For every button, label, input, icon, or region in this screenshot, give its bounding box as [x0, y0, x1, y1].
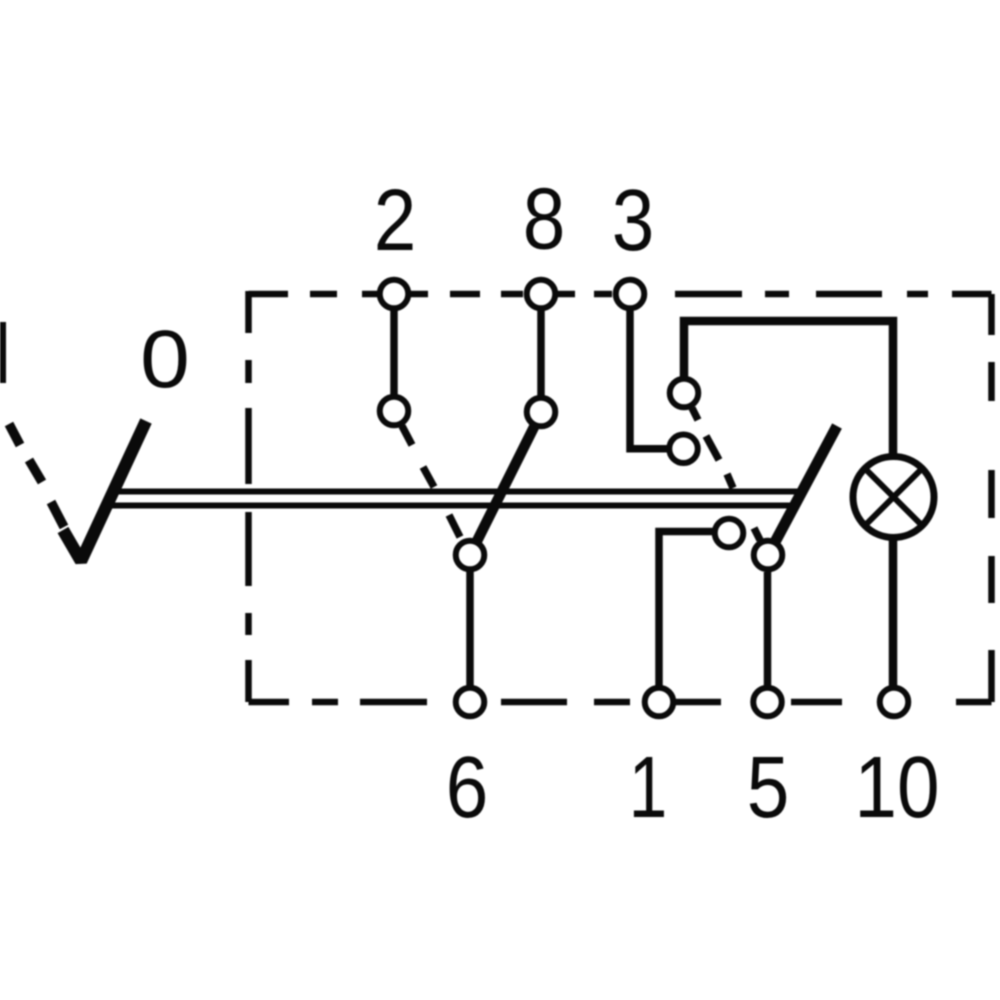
pivot contact of 6: [456, 541, 485, 570]
rocker lever dashed (position I): [9, 424, 64, 527]
terminal 1: [645, 688, 674, 717]
pivot contact of 5: [754, 541, 783, 570]
svg-text:1: 1: [629, 739, 668, 836]
svg-text:0: 0: [140, 313, 190, 405]
upper right contact (lamp feed): [670, 379, 699, 408]
mechanical coupling line (lower): [105, 503, 796, 509]
mechanical coupling line (upper): [111, 489, 803, 495]
terminal 8: [527, 280, 556, 309]
contact of 2: [380, 397, 409, 426]
solid moving contact arm of 5 (parked open): [775, 426, 838, 543]
svg-text:3: 3: [612, 172, 655, 269]
wire upper right contact to lamp: [684, 321, 893, 456]
contact of 1: [715, 519, 744, 548]
wire terminal 5 to pivot: [764, 572, 772, 700]
wire terminal 1 to contact: [659, 532, 714, 701]
switch body border: bottom edge: [249, 699, 992, 706]
dashed moving contact 5 to upper right (open position): [692, 408, 760, 540]
terminal 3: [616, 280, 645, 309]
lamp L1 cross: [865, 469, 922, 526]
wire lamp to terminal 10: [889, 538, 898, 700]
terminal 2: [380, 280, 409, 309]
svg-text:2: 2: [374, 172, 417, 269]
lower right contact (to 3): [669, 435, 698, 464]
wire terminal 2 to contact: [390, 306, 398, 400]
svg-text:8: 8: [523, 171, 566, 268]
svg-text:6: 6: [446, 739, 489, 836]
wire terminal 6 to pivot: [466, 570, 474, 700]
position label I: [0, 322, 6, 383]
terminal 10: [880, 688, 909, 717]
dashed moving contact 2-6 (open position): [402, 426, 460, 537]
terminal 6: [456, 688, 485, 717]
lamp L1 body: [853, 457, 934, 538]
switch body border: right edge: [988, 294, 995, 702]
terminal 5: [753, 688, 782, 717]
contact of 8: [527, 398, 556, 427]
svg-text:5: 5: [747, 739, 790, 836]
wire terminal 8 to contact: [537, 306, 545, 400]
switch body dash-dot border: top edge: [249, 291, 992, 702]
solid moving contact 8-6 (closed): [477, 425, 535, 541]
svg-text:10: 10: [854, 739, 939, 836]
wire terminal 3 to lower right contact: [630, 306, 668, 449]
rocker lever solid (position 0): [63, 421, 146, 561]
switch body border: left edge: [245, 291, 252, 702]
